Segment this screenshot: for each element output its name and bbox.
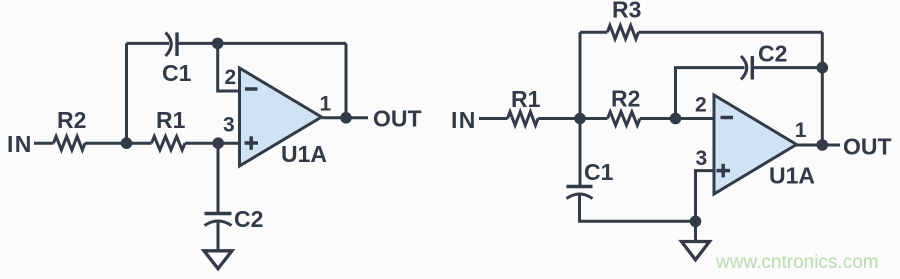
- svg-text:R3: R3: [612, 0, 641, 23]
- svg-text:OUT: OUT: [373, 106, 422, 132]
- svg-text:3: 3: [223, 113, 235, 136]
- svg-text:U1A: U1A: [281, 141, 327, 167]
- svg-text:3: 3: [696, 147, 708, 170]
- svg-text:R2: R2: [57, 107, 86, 133]
- svg-text:www.cntronics.com: www.cntronics.com: [715, 252, 879, 273]
- svg-text:OUT: OUT: [843, 134, 892, 160]
- svg-text:IN: IN: [451, 107, 477, 133]
- svg-text:2: 2: [695, 93, 707, 116]
- svg-text:1: 1: [320, 92, 332, 115]
- svg-text:U1A: U1A: [769, 163, 815, 189]
- svg-text:C2: C2: [758, 41, 787, 67]
- svg-text:IN: IN: [7, 131, 33, 157]
- svg-text:C1: C1: [584, 159, 614, 185]
- svg-text:C1: C1: [162, 60, 192, 86]
- svg-text:R2: R2: [611, 86, 640, 112]
- svg-text:R1: R1: [156, 107, 186, 133]
- svg-text:2: 2: [225, 66, 237, 89]
- svg-text:C2: C2: [234, 206, 263, 232]
- svg-text:1: 1: [795, 119, 807, 142]
- svg-text:R1: R1: [511, 86, 541, 112]
